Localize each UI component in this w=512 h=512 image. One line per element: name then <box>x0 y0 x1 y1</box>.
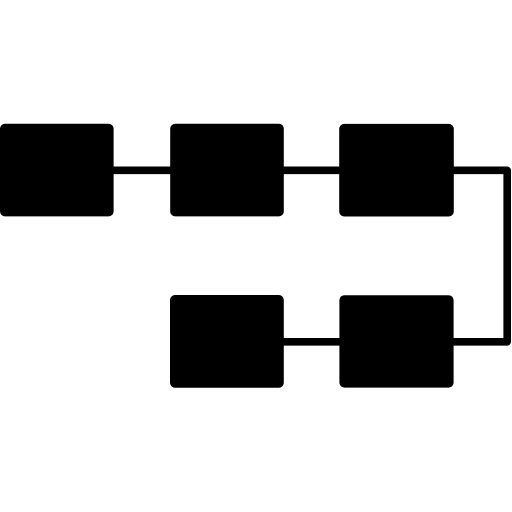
block 5 (bottom row, right) <box>339 295 453 387</box>
wire: block2 to block3 <box>280 167 343 175</box>
wire: block3 right, elbow down, to block5 <box>450 170 507 341</box>
block 1 (top row, left) <box>0 124 114 217</box>
block 3 (top row, right) <box>339 124 454 217</box>
wire: block5 to block4 <box>280 338 343 346</box>
block 2 (top row, middle) <box>170 124 284 217</box>
block 4 (bottom row, left) <box>170 295 284 388</box>
wire: block1 to block2 <box>110 167 174 175</box>
